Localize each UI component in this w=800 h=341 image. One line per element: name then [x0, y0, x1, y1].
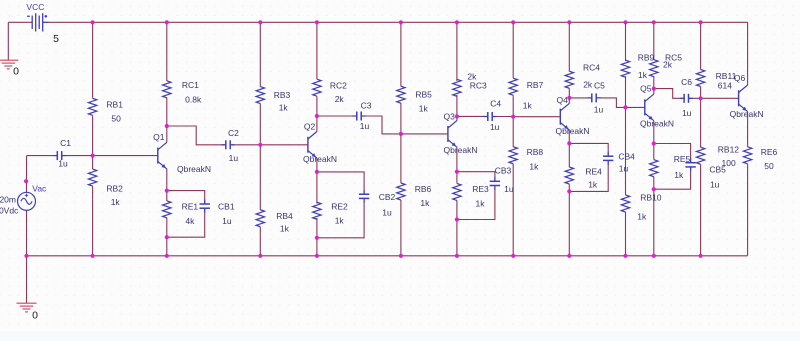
resistor RC3: [453, 79, 461, 96]
svg-text:Vac: Vac: [32, 184, 47, 194]
junction bottom rail x=513.2: [511, 254, 515, 258]
transistor Q3: [448, 121, 457, 148]
svg-text:Q2: Q2: [304, 122, 316, 132]
svg-text:CB5: CB5: [709, 164, 726, 174]
capacitor C6: [680, 94, 693, 103]
svg-text:1u: 1u: [360, 121, 370, 131]
battery VCC: [27, 13, 48, 31]
wire RE1 CB1 loop: [167, 191, 205, 238]
wire Q3 collector through C4: [457, 116, 513, 120]
junction RE3 bottom: [455, 217, 459, 221]
wire Q4 collector through C5: [569, 98, 625, 108]
resistor RB8: [509, 146, 517, 165]
resistor RB11: [696, 70, 704, 87]
junction top rail x=700.6: [699, 20, 703, 24]
svg-text:RB8: RB8: [527, 147, 544, 157]
svg-text:RC2: RC2: [330, 81, 347, 91]
svg-text:Q3: Q3: [444, 112, 456, 122]
svg-text:C4: C4: [490, 99, 501, 109]
resistor RE6: [743, 146, 751, 165]
capacitor C3: [352, 112, 365, 121]
svg-text:QbreakN: QbreakN: [640, 119, 674, 129]
resistor RB3: [256, 87, 264, 104]
svg-text:RE2: RE2: [331, 202, 348, 212]
wire C5 node to Q5 base: [626, 106, 645, 108]
junction top rail x=456.9: [455, 20, 459, 24]
junction RE5 bottom: [652, 187, 656, 191]
svg-text:0Vdc: 0Vdc: [0, 206, 19, 216]
wire top VCC rail: [49, 21, 748, 23]
svg-text:1u: 1u: [222, 216, 232, 226]
resistor RE1: [163, 201, 171, 218]
junction bottom rail x=260.3: [258, 254, 262, 258]
capacitor CB5: [685, 158, 695, 171]
svg-text:5: 5: [53, 33, 59, 45]
wire C3 node to Q3 base: [401, 133, 448, 135]
wire C2 node to Q2 base: [260, 144, 308, 146]
resistor RB9: [621, 60, 629, 77]
svg-text:1u: 1u: [682, 108, 692, 118]
junction bottom rail x=653.8: [652, 254, 656, 258]
svg-text:QbreakN: QbreakN: [443, 145, 477, 155]
svg-text:2k: 2k: [583, 80, 593, 90]
junction bottom rail x=92.6: [91, 254, 95, 258]
resistor RB4: [256, 209, 264, 228]
wire Q1 collector to C2: [167, 126, 260, 145]
svg-text:RB2: RB2: [106, 184, 123, 194]
junction top rail x=513.2: [511, 20, 515, 24]
wire C4 node to Q4 base: [513, 116, 560, 118]
svg-text:CB1: CB1: [218, 201, 235, 211]
wire RE1 leads to rail: [166, 191, 168, 256]
capacitor CB4: [603, 152, 613, 165]
resistor RB10: [621, 194, 629, 213]
ground 0 (bottom): [17, 303, 37, 312]
resistor RE2: [313, 202, 321, 219]
transistor Q2: [308, 132, 317, 159]
svg-text:0: 0: [13, 66, 19, 78]
wire RE2 leads to rail: [316, 172, 318, 256]
svg-text:QbreakN: QbreakN: [303, 154, 337, 164]
wire RE2 CB2 loop: [317, 172, 364, 238]
capacitor CB1: [200, 200, 210, 213]
svg-text:1k: 1k: [335, 216, 345, 226]
junction top rail x=625.5: [623, 20, 627, 24]
junction Q3 base node: [399, 132, 403, 136]
svg-text:1k: 1k: [637, 211, 647, 221]
junction bottom rail x=316.9: [315, 254, 319, 258]
wire RC3 column: [456, 22, 458, 116]
svg-text:50: 50: [764, 161, 774, 171]
wire RE5 CB5 loop: [654, 144, 691, 190]
junction Q2 collector: [315, 114, 319, 118]
junction Q4 collector: [567, 96, 571, 100]
svg-text:CB3: CB3: [495, 165, 512, 175]
resistor RB6: [397, 182, 405, 201]
svg-text:CB2: CB2: [379, 192, 396, 202]
capacitor C1: [53, 151, 66, 160]
wire RC2 column: [316, 22, 318, 116]
wire RE4 leads to rail: [568, 143, 570, 255]
wire battery negative lead: [8, 21, 31, 23]
wire RB7 RB8 column: [512, 22, 514, 256]
svg-text:1u: 1u: [504, 184, 514, 194]
junction top rail x=400.9: [399, 20, 403, 24]
capacitor C5: [587, 93, 600, 102]
wire Q1 emitter: [166, 169, 168, 191]
wire RC1 column: [166, 22, 168, 126]
resistor RE4: [565, 166, 573, 185]
wire RB1 RB2 column: [92, 22, 94, 256]
junction bottom rail x=166.8: [165, 254, 169, 258]
svg-text:Q1: Q1: [153, 132, 165, 142]
resistor RC2: [313, 79, 321, 97]
resistor RE3: [453, 183, 461, 201]
svg-text:1u: 1u: [382, 207, 392, 217]
svg-text:4k: 4k: [185, 216, 195, 226]
wire C6 node to Q6 base: [701, 97, 739, 99]
svg-text:1k: 1k: [674, 170, 684, 180]
svg-text:RB5: RB5: [415, 89, 432, 99]
junction Q1 base node: [91, 154, 95, 158]
junction top rail x=316.9: [315, 20, 319, 24]
svg-text:RB10: RB10: [640, 192, 662, 202]
svg-text:1k: 1k: [638, 70, 648, 80]
svg-text:1k: 1k: [529, 161, 539, 171]
wire Q6 emitter to RE6: [747, 112, 749, 146]
wire bottom rail to ground: [26, 256, 28, 303]
transistor Q1: [158, 142, 167, 169]
wire Q6 collector to rail: [747, 22, 749, 85]
junction RE2 top: [315, 170, 319, 174]
svg-text:QbreakN: QbreakN: [555, 126, 589, 136]
resistor RB5: [397, 86, 405, 103]
svg-text:Q4: Q4: [557, 95, 569, 105]
source Vac: [18, 192, 36, 210]
svg-text:2k: 2k: [335, 94, 345, 104]
svg-text:1k: 1k: [588, 179, 598, 189]
wire RB11 RB12 column: [700, 22, 702, 256]
junction bottom rail x=625.5: [623, 254, 627, 258]
capacitor C2: [221, 140, 234, 149]
svg-text:RB4: RB4: [276, 211, 293, 221]
resistor RB1: [88, 98, 96, 117]
junction top rail x=569.3: [567, 20, 571, 24]
svg-text:1u: 1u: [490, 122, 500, 132]
svg-text:RB12: RB12: [718, 145, 740, 155]
capacitor C4: [483, 112, 496, 121]
svg-text:0.8k: 0.8k: [185, 95, 202, 105]
junction top rail x=260.3: [258, 20, 262, 24]
wire Vac column: [26, 156, 28, 256]
transistor Q4: [560, 103, 569, 130]
resistor RC1: [163, 81, 171, 98]
svg-text:RB9: RB9: [638, 52, 655, 62]
junction bottom rail x=456.9: [455, 254, 459, 258]
svg-text:0: 0: [32, 310, 38, 322]
wire Q5 collector through C6: [654, 89, 701, 99]
junction RE1 bottom: [165, 235, 169, 239]
resistor RB12: [696, 147, 704, 166]
wire Q2 collector through C3: [317, 116, 401, 134]
junction RE5 top: [652, 141, 656, 145]
resistor RB2: [88, 156, 96, 200]
svg-text:20m: 20m: [0, 195, 16, 205]
svg-text:1k: 1k: [420, 198, 430, 208]
capacitor CB2: [359, 190, 369, 203]
svg-text:1u: 1u: [594, 105, 604, 115]
svg-text:C2: C2: [228, 128, 239, 138]
transistor Q6: [739, 85, 748, 112]
svg-text:Q5: Q5: [640, 84, 652, 94]
svg-text:50: 50: [111, 113, 121, 123]
junction top rail x=92.6: [91, 20, 95, 24]
junction RE1 top: [165, 189, 169, 193]
wire RC5 column: [653, 22, 655, 88]
svg-text:1k: 1k: [280, 224, 290, 234]
junction RE4 bottom: [567, 189, 571, 193]
wire RB3 RB4 column: [259, 22, 261, 256]
svg-text:RE3: RE3: [472, 184, 489, 194]
svg-text:1u: 1u: [710, 179, 720, 189]
pin dot Vac: [24, 179, 28, 183]
wire Q2 emitter: [316, 158, 318, 172]
wire RC4 column: [568, 22, 570, 98]
svg-text:1k: 1k: [419, 104, 429, 114]
svg-text:VCC: VCC: [26, 2, 44, 12]
junction top rail x=653.8: [652, 20, 656, 24]
junction Q5 collector: [652, 87, 656, 91]
wire RE3 CB3 loop: [457, 172, 495, 220]
svg-text:1k: 1k: [111, 197, 121, 207]
resistor RE5: [650, 157, 658, 180]
svg-text:RB3: RB3: [274, 90, 291, 100]
resistor RC5: [650, 60, 658, 77]
wire bottom ground rail: [27, 255, 748, 257]
junction bottom rail x=26.5: [24, 254, 28, 258]
junction bottom rail x=700.6: [699, 254, 703, 258]
svg-text:RC1: RC1: [182, 80, 199, 90]
junction Q1 collector: [165, 124, 169, 128]
transistor Q5: [645, 94, 654, 121]
junction Q5 base node: [623, 105, 627, 109]
svg-text:RE1: RE1: [182, 201, 199, 211]
svg-text:C5: C5: [594, 81, 605, 91]
svg-text:C3: C3: [361, 101, 372, 111]
wire input node through C1 to Q1 base: [27, 155, 158, 157]
svg-text:C1: C1: [60, 138, 71, 148]
svg-text:RB7: RB7: [527, 80, 544, 90]
wire RB5 RB6 column: [400, 22, 402, 256]
junction top rail x=166.8: [165, 20, 169, 24]
svg-text:1u: 1u: [58, 158, 68, 168]
ground 0 (VCC): [0, 60, 18, 69]
junction Q2 base node: [258, 143, 262, 147]
wire RE6 to rail: [747, 165, 749, 256]
resistor RB7: [509, 77, 517, 96]
svg-text:C6: C6: [681, 77, 692, 87]
wire Q3 emitter: [456, 147, 458, 172]
junction RE2 bottom: [315, 236, 319, 240]
svg-text:1k: 1k: [476, 198, 486, 208]
svg-text:RB1: RB1: [106, 99, 123, 109]
junction RE4 top: [567, 141, 571, 145]
svg-text:QbreakN: QbreakN: [730, 109, 764, 119]
wire Q4 emitter: [568, 130, 570, 143]
junction Q6 base node: [699, 96, 703, 100]
svg-text:CB4: CB4: [618, 152, 635, 162]
junction bottom rail x=569.3: [567, 254, 571, 258]
svg-text:RC3: RC3: [470, 81, 487, 91]
junction Q4 base node: [511, 115, 515, 119]
wire RB9 RB10 column: [625, 22, 627, 256]
wire battery to ground: [7, 22, 9, 60]
svg-text:1u: 1u: [619, 163, 629, 173]
svg-text:Q6: Q6: [734, 73, 746, 83]
capacitor CB3: [490, 177, 500, 190]
svg-text:1u: 1u: [229, 153, 239, 163]
svg-text:RB6: RB6: [415, 184, 432, 194]
resistor RC4: [565, 71, 573, 89]
svg-text:RE6: RE6: [761, 147, 778, 157]
junction RE3 top: [455, 170, 459, 174]
svg-text:1k: 1k: [279, 103, 289, 113]
svg-text:614: 614: [718, 81, 732, 91]
wire RE5 leads to rail: [653, 144, 655, 256]
svg-text:2k: 2k: [663, 60, 673, 70]
junction Q3 collector: [455, 114, 459, 118]
junction bottom rail x=400.9: [399, 254, 403, 258]
svg-text:1k: 1k: [523, 101, 533, 111]
svg-text:RC4: RC4: [583, 62, 600, 72]
wire Q5 emitter: [653, 121, 655, 144]
wire RE3 leads to rail: [456, 172, 458, 256]
svg-text:RE4: RE4: [585, 166, 602, 176]
svg-text:QbreakN: QbreakN: [177, 164, 211, 174]
wire RE4 CB4 loop: [569, 143, 608, 191]
